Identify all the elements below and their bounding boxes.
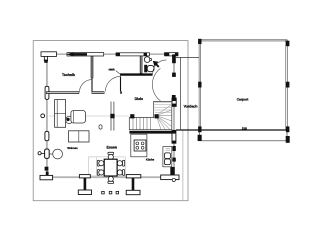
carport outline [199, 40, 287, 130]
carport apron post L [198, 135, 202, 141]
boundary line gray [182, 130, 184, 201]
wall B vertical technik/hwr [91, 56, 94, 78]
right wall jamb bottom [172, 95, 176, 99]
wall A horizontal [46, 91, 79, 94]
window W2 top [116, 53, 150, 56]
round table left [53, 149, 63, 159]
entrance arrow [156, 64, 159, 67]
wall D horizontal diele top [120, 73, 153, 75]
svg-text:Technik: Technik [62, 73, 75, 77]
carport post MR [286, 82, 290, 88]
right wall pier d [172, 146, 175, 151]
diele pillar element [110, 102, 112, 131]
swivel chair [66, 116, 73, 123]
dining chairs left [97, 160, 99, 166]
wall C vertical hwr/wc [140, 56, 143, 74]
door technik arc [79, 80, 92, 93]
carport post BL [198, 126, 201, 132]
stairs straight treads [133, 118, 151, 130]
glass line top wall [46, 53, 177, 55]
carport bottom slab line [176, 129, 288, 131]
wc toilet [144, 65, 147, 73]
right wall window piece [172, 98, 176, 106]
carport apron post R [286, 136, 290, 143]
coffee table [69, 131, 90, 142]
stair post 2 [155, 114, 159, 118]
right wall jamb top [172, 73, 176, 77]
stairs upper treads [154, 102, 172, 112]
kitchen sink counter [163, 147, 172, 167]
carport post TR [286, 41, 290, 47]
stair post 1 [130, 114, 134, 118]
svg-text:Küche: Küche [146, 158, 155, 162]
stairs outline [129, 102, 172, 130]
svg-text:Carport: Carport [237, 97, 250, 101]
right wall terrace door [172, 130, 176, 143]
armchair [71, 111, 86, 124]
carport post BR [286, 126, 290, 132]
dining chair bottom [108, 176, 113, 181]
window W3 top [165, 53, 179, 56]
right wall pier e [172, 158, 175, 162]
svg-text:Diele: Diele [135, 97, 143, 101]
svg-text:Vordach: Vordach [184, 104, 198, 108]
left wall column circle [41, 114, 45, 118]
beam line wohnen [49, 115, 111, 117]
carport post TL [198, 39, 201, 44]
dining rug [89, 157, 126, 176]
door hwr leaf [120, 76, 122, 91]
door technik leaf [91, 78, 93, 91]
svg-text:HWR: HWR [109, 69, 115, 72]
kitchen wall under stairs [129, 131, 176, 134]
porch markers [102, 191, 105, 194]
glass line bottom porch [53, 176, 161, 178]
plot frame [33, 41, 188, 201]
svg-text:Essen: Essen [106, 146, 117, 150]
carport post ML [198, 82, 201, 88]
dining chairs right [123, 160, 125, 166]
entrance door arc [152, 68, 160, 100]
wc sink [144, 57, 150, 63]
wc door arc [153, 60, 167, 74]
carport apron [198, 130, 200, 141]
left wall pier 4 [45, 167, 49, 171]
stairs winder treads [157, 105, 172, 130]
kitchen counter [131, 134, 147, 157]
right corner post [170, 167, 174, 175]
vordach edge line [180, 57, 182, 129]
left wall pier 3 [45, 149, 50, 158]
vordach top line [176, 56, 199, 58]
left wall pier 2 [45, 131, 49, 140]
stool [99, 125, 102, 129]
porch post 2 [126, 175, 141, 178]
left wall pier 1 [45, 86, 49, 99]
glass line left wall [46, 56, 48, 176]
right wall glass [173, 56, 175, 77]
right wall pier a [172, 54, 176, 63]
corner post bottom-left [46, 172, 49, 178]
door hwr arc [105, 76, 120, 91]
dining table [104, 159, 117, 176]
stove [134, 140, 146, 151]
window W1 top with arrow [67, 53, 104, 56]
porch post 1 [79, 175, 90, 178]
svg-text:318: 318 [242, 126, 247, 130]
dining chair top [108, 152, 114, 154]
chimney top-left [41, 52, 57, 61]
svg-text:Wohnen: Wohnen [67, 147, 78, 150]
small circle outside left [38, 152, 41, 155]
sofa [55, 100, 66, 128]
